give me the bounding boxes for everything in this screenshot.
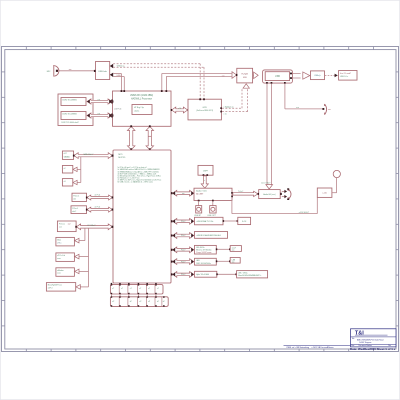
- open arrow Hi-Spd to USB jack: [253, 72, 258, 79]
- svg-text:DDR2 SO-DIMM2: DDR2 SO-DIMM2: [62, 114, 76, 116]
- svg-text:xxx: xxx: [232, 250, 235, 252]
- dashed wire pair USB D+/- to GPU: [113, 64, 204, 99]
- label DDR PC2: [61, 122, 78, 124]
- net label USB: [117, 75, 122, 77]
- svg-text:xxx: xxx: [328, 109, 331, 111]
- open arrowhead up into Hi-Spd: [243, 84, 249, 88]
- sheet border outer frame: [2, 47, 399, 352]
- svg-text:xxxx: xxxx: [57, 273, 61, 275]
- svg-text:xT: xT: [130, 288, 132, 290]
- net label on wire: [296, 107, 299, 109]
- svg-text:Audio HD (xxx): Audio HD (xxx): [263, 193, 275, 196]
- block wifi module: [317, 188, 332, 197]
- header strip row 1: [110, 284, 163, 294]
- svg-text:CMP?: CMP?: [203, 170, 208, 172]
- svg-text:xIDE/UDMA TV 133x: xIDE/UDMA TV 133x: [197, 220, 214, 223]
- antenna circle: [333, 170, 340, 177]
- svg-text:USB D+/-: USB D+/-: [117, 66, 125, 68]
- svg-text:LINE OUT?: LINE OUT?: [207, 215, 216, 217]
- block 4-in CF reader: [339, 71, 357, 81]
- wire row3 to 4prt: [216, 248, 231, 250]
- open arrowhead into Hi-Spd box: [232, 72, 237, 79]
- svg-text:PCIe x1: PCIe x1: [73, 195, 79, 197]
- dashed wire GPU to Hi-Spd: [222, 88, 248, 111]
- wire hub to processor (USB): [113, 74, 124, 91]
- title block: [350, 329, 396, 351]
- block CMP: [198, 165, 213, 176]
- svg-text:Hybr/ SV xFGbM: Hybr/ SV xFGbM: [196, 273, 209, 276]
- svg-text:Line / Mic?: Line / Mic?: [261, 182, 270, 184]
- svg-text:xT: xT: [121, 288, 123, 290]
- svg-text:Mxxx: Mxxx: [57, 240, 61, 242]
- svg-text:x 2011 SBYxxnnmBNxnnn: x 2011 SBYxxnnmBNxnnn: [312, 347, 334, 349]
- svg-text:clocks: clocks: [134, 111, 139, 113]
- inner block HT bridge: [132, 105, 152, 115]
- open arrowhead down into audio jack: [266, 185, 273, 189]
- svg-text:xSB / 1394a: xSB / 1394a: [238, 273, 247, 275]
- bus arrow PCI to chipset: [75, 224, 113, 230]
- sheet border inner frame: [5, 50, 396, 349]
- chipset bottom pins to strip1: [111, 283, 157, 285]
- svg-text:HADWILL Processor: HADWILL Processor: [131, 98, 152, 101]
- net label SpdIF: [224, 106, 234, 108]
- bus arrow DDR2 to processor: [87, 113, 112, 118]
- block row2: [195, 232, 228, 239]
- svg-text:xT: xT: [139, 288, 141, 290]
- block SATA drive 3: [62, 179, 77, 186]
- bus label x64 b: [97, 114, 100, 116]
- svg-text:GPU: GPU: [203, 107, 208, 109]
- block PCI device 1: [57, 221, 76, 232]
- svg-text:PCIe?: PCIe?: [181, 274, 186, 276]
- svg-text:MCP55: MCP55: [118, 157, 126, 159]
- svg-text:DDR PC2-6400 dual?: DDR PC2-6400 dual?: [61, 122, 78, 124]
- dark arrowhead into hub (USB): [110, 73, 113, 77]
- svg-text:x3: x3: [64, 181, 66, 183]
- block U3 GPU: [188, 99, 221, 120]
- svg-text:(GeForce 8800 GTX): (GeForce 8800 GTX): [196, 110, 213, 112]
- connector J3 (half oval): [322, 104, 330, 115]
- svg-text:SATAdrv: SATAdrv: [64, 155, 71, 158]
- svg-text:Audio / holte: Audio / holte: [196, 190, 207, 193]
- block USB3 jack: [311, 71, 325, 80]
- wire row5 to wide box: [216, 273, 237, 275]
- svg-text:RJ45 10/100/1000x: RJ45 10/100/1000x: [196, 263, 211, 265]
- svg-text:xT: xT: [148, 288, 150, 290]
- block row1 K: [238, 217, 251, 224]
- label x16 PCIe: [114, 108, 121, 110]
- chipset feature list: [118, 166, 162, 183]
- block PCIe slot 1: [72, 193, 87, 201]
- svg-text:PCI 32bit?: PCI 32bit?: [88, 224, 96, 227]
- svg-text:x 64: x 64: [97, 100, 100, 102]
- block group DDR DIMMs outer: [58, 94, 93, 126]
- svg-text:xT: xT: [157, 288, 159, 290]
- border zone tick marks: [2, 47, 399, 352]
- svg-text:xPCI xCrd: xPCI xCrd: [57, 254, 65, 257]
- block row5 wide: [237, 271, 268, 278]
- svg-text:USBx jk: USBx jk: [314, 75, 320, 77]
- svg-text:xxx: xxx: [232, 262, 235, 264]
- jack sockets under codec: [194, 201, 216, 217]
- block row1 IDE: [195, 217, 224, 225]
- svg-text:xxxx: xxxx: [57, 258, 61, 260]
- svg-text:4-in CF read?: 4-in CF read?: [340, 73, 351, 75]
- block SATA drive 1: [62, 151, 73, 159]
- USB jack bottom pins: [266, 82, 286, 84]
- svg-text:xxPCI: xxPCI: [48, 288, 53, 290]
- connector J2 USB jack: [263, 70, 293, 83]
- svg-text:x Spd/jack xx: x Spd/jack xx: [224, 106, 234, 108]
- bus arrow DDR1 to processor: [87, 99, 112, 104]
- wire wifi to antenna: [332, 178, 337, 193]
- block device B4: [56, 268, 79, 277]
- block row3 4prt: [230, 246, 241, 252]
- wire sata collector: [77, 157, 81, 183]
- svg-text:x xx: x xx: [296, 107, 299, 109]
- open arrow USB jack to card box: [292, 72, 310, 79]
- svg-text:slot 2: slot 2: [72, 210, 76, 213]
- bus label PCIe2: [95, 207, 101, 209]
- svg-text:SATA 3Gb/s?: SATA 3Gb/s?: [83, 153, 93, 156]
- svg-text:Date: WedDec2006 Sheet 1 of 1: Date: WedDec2006 Sheet 1 of 1 x: [350, 347, 396, 351]
- net label 480Mbs: [222, 76, 225, 78]
- GPU right pins: [220, 107, 222, 112]
- svg-text:x16: x16: [178, 108, 181, 110]
- block audio HD jack: [258, 190, 282, 199]
- bus arrow PCIe2 to chipset: [86, 207, 113, 212]
- svg-text:x2: x2: [64, 168, 66, 170]
- svg-text:xx2: xx2: [68, 223, 71, 225]
- wire usb jack to rj connector: [285, 84, 323, 109]
- block DDR2 SO-DIMM 1: [61, 98, 86, 106]
- svg-text:PCIe?: PCIe?: [181, 261, 186, 263]
- svg-text:PCIx xx: PCIx xx: [59, 223, 65, 225]
- block PCIe slot 2: [71, 206, 87, 214]
- svg-text:x-110: x-110: [322, 192, 326, 194]
- svg-text:Prop x 10/54? xxxxx: Prop x 10/54? xxxxx: [196, 251, 211, 254]
- block row3: [195, 245, 217, 254]
- bus arrow chipset row1: [171, 218, 194, 224]
- bus arrow PCIe1 to chipset: [86, 195, 113, 200]
- svg-text:x 64: x 64: [97, 114, 100, 116]
- net label under: [224, 113, 227, 115]
- svg-text:DDR2 SO-DIMM1: DDR2 SO-DIMM1: [62, 100, 76, 102]
- svg-text:x-110 Wi-Fi?: x-110 Wi-Fi?: [299, 212, 309, 214]
- block device B2: [56, 237, 79, 246]
- svg-text:x 1x: x 1x: [224, 113, 227, 115]
- block row4 LAN: [195, 258, 217, 265]
- wire row1 to K box: [223, 220, 239, 222]
- block U6 audio codec: [194, 188, 233, 201]
- footer note strip: [284, 345, 351, 349]
- connector J-mic (half-circle symbol): [54, 65, 59, 77]
- bus arrow chipset row5: [171, 272, 194, 278]
- svg-text:x16 PCIe: x16 PCIe: [114, 108, 121, 110]
- net label USB D+/-: [117, 66, 125, 68]
- block DDR2 SO-DIMM 2: [61, 112, 86, 120]
- svg-text:PCIe?: PCIe?: [181, 250, 186, 252]
- svg-text:USB: USB: [275, 76, 280, 78]
- ticks strip1 to strip2: [111, 294, 155, 297]
- net label MIC: [47, 71, 51, 73]
- bus label PCI 32: [88, 224, 96, 227]
- block U2 processor: [113, 91, 172, 126]
- wire row4 to lan jack: [216, 260, 231, 262]
- svg-text:MIC: MIC: [47, 71, 51, 73]
- bus arrow chipset row4: [171, 259, 194, 265]
- svg-text:USB hub: USB hub: [98, 71, 107, 73]
- USB jack right pins: [290, 73, 292, 79]
- svg-text:HT Brg / Sp: HT Brg / Sp: [134, 106, 144, 109]
- bus arrow processor-chipset A: [127, 125, 135, 150]
- svg-text:x1 PCIe: x1 PCIe: [95, 194, 101, 196]
- svg-text:Mxxx/HDMI/xSBSATAHDMI Tx: Mxxx/HDMI/xSBSATAHDMI Tx: [238, 274, 261, 277]
- arrow CMP down to codec: [201, 176, 208, 188]
- svg-text:xT: xT: [112, 288, 114, 290]
- connector J4 audio panel: [282, 188, 291, 200]
- svg-text:Hi-SpB: Hi-SpB: [242, 74, 249, 76]
- svg-text:LINE IN?: LINE IN?: [194, 215, 201, 217]
- wire codec to wifi module: [232, 197, 317, 214]
- block row5: [195, 271, 217, 277]
- bus arrow chipset row2: [171, 233, 194, 239]
- processor top pins: [121, 90, 168, 92]
- net label wifi: [299, 212, 309, 214]
- svg-text:xxx: xxx: [222, 76, 225, 78]
- svg-text:x1 PCIe: x1 PCIe: [95, 207, 101, 209]
- svg-text:T-Out?: T-Out?: [238, 190, 243, 193]
- bus arrow processor-chipset B: [146, 125, 154, 150]
- bus label PCIe1: [95, 194, 101, 196]
- dashed arrow to CF reader: [325, 74, 338, 78]
- bus arrow SATA to chipset: [73, 153, 114, 159]
- svg-text:xTV.x: xTV.x: [57, 242, 61, 244]
- T-Out arrow codec to audio jack: [233, 190, 258, 196]
- svg-text:xx1: xx1: [59, 226, 62, 228]
- dark arrowhead into hub (USB D+/-): [110, 64, 113, 68]
- svg-text:xST: xST: [64, 153, 67, 155]
- wire processor to Hi-Spd USB: [162, 74, 232, 91]
- bus arrow chipset row3: [171, 247, 194, 253]
- svg-text:T&I: T&I: [355, 330, 364, 336]
- header strip row 2: [110, 296, 168, 306]
- bus label x16: [178, 108, 181, 110]
- svg-text:PCIe?: PCIe?: [181, 221, 186, 223]
- block row4 jack: [230, 258, 240, 264]
- processor left dark port y115: [109, 113, 114, 118]
- svg-text:xIDE/NO/GbE/IEEE1394bGbX: xIDE/NO/GbE/IEEE1394bGbX: [197, 235, 222, 237]
- bus label x64: [97, 100, 100, 102]
- block U5 chipset MCP: [113, 150, 171, 283]
- net label Line/Mic: [261, 182, 270, 184]
- svg-text:xxx: xxx: [182, 193, 185, 195]
- svg-text:USB 3.0 x: USB 3.0 x: [340, 76, 348, 78]
- block U4 Hi-Spd USB: [236, 68, 253, 83]
- block U1 USB hub: [94, 62, 110, 80]
- wire line/mic down: [267, 84, 272, 185]
- block device B3: [56, 253, 79, 262]
- svg-text:USB/1333 (GSM 2BM): USB/1333 (GSM 2BM): [130, 95, 153, 97]
- svg-text:N-SBY Diagram: N-SBY Diagram: [359, 341, 372, 344]
- wire mic to USB hub: [58, 69, 95, 71]
- bus arrow chipset to audio codec: [171, 190, 194, 196]
- svg-text:Mxxx/SymbHT xxx: Mxxx/SymbHT xxx: [48, 285, 62, 287]
- processor left dark port y101: [109, 99, 114, 104]
- svg-text:PCIe x1: PCIe x1: [72, 208, 78, 210]
- block SATA drive 2: [62, 166, 77, 174]
- svg-text:PBNL xxI + BN Networking: PBNL xxI + BN Networking: [287, 346, 310, 349]
- bus label SATA 3Gb: [83, 153, 93, 156]
- GPU top pins: [199, 98, 205, 100]
- svg-text:xModem: xModem: [57, 270, 64, 272]
- block device B5: [46, 283, 80, 292]
- wire pci ladder: [79, 228, 88, 287]
- svg-text:xxx: xxx: [69, 69, 72, 71]
- svg-text:PCIe?: PCIe?: [181, 235, 186, 237]
- bus arrow x16 PCIe processor-GPU: [171, 107, 189, 113]
- svg-text:ALC889: ALC889: [196, 193, 203, 196]
